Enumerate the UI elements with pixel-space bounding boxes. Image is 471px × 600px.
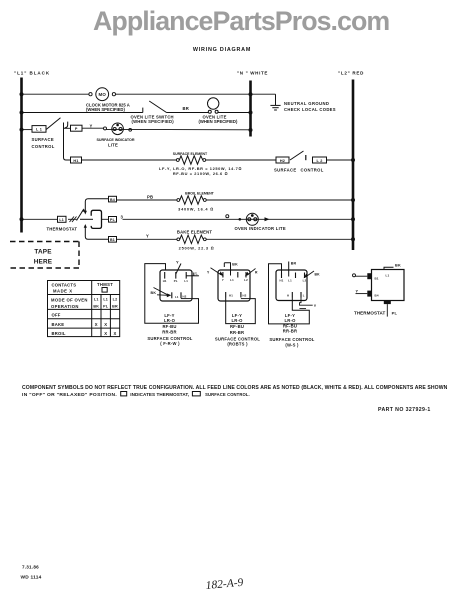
svg-text:L: L — [303, 294, 305, 298]
svg-text:P: P — [75, 127, 78, 131]
thermostat symbol in note — [121, 392, 127, 396]
bus N (middle vertical neutral line, white) — [249, 81, 252, 137]
junction dots on bus L1 — [20, 92, 24, 221]
wire row4 right: L2 to bus L2 — [327, 159, 354, 161]
svg-text:BAKE ELEMENT: BAKE ELEMENT — [177, 229, 212, 234]
block3 top-right blade — [306, 271, 315, 277]
wire row4: surface element to H2 — [206, 159, 276, 161]
svg-text:B4: B4 — [110, 198, 115, 202]
svg-text:X: X — [95, 322, 98, 327]
svg-text:MO: MO — [98, 92, 106, 97]
terminal H2 — [276, 157, 289, 163]
oven lite switch SW1 — [143, 101, 167, 113]
svg-text:L1: L1 — [103, 298, 108, 302]
bake element terminal left — [177, 238, 180, 241]
svg-text:Y: Y — [314, 304, 317, 308]
wire row3 left: bus L1 to surface control L1 — [22, 129, 33, 131]
svg-text:THMST: THMST — [97, 282, 113, 287]
wire row2 left: bus L1 to oven lite switch — [22, 112, 143, 114]
svg-text:L2: L2 — [303, 279, 307, 283]
svg-text:L2: L2 — [244, 278, 248, 282]
block2 bottom terminals — [225, 292, 227, 298]
wire P row stub — [64, 127, 71, 129]
resistor bake element — [180, 235, 204, 243]
svg-text:INDICATES THERMOSTAT,: INDICATES THERMOSTAT, — [130, 392, 189, 397]
svg-text:H1: H1 — [163, 279, 167, 283]
arrow marker on oven indicator wire — [265, 217, 270, 221]
svg-text:OFF: OFF — [52, 313, 61, 318]
svg-text:H2: H2 — [280, 159, 285, 163]
svg-text:RF-BU: RF-BU — [283, 323, 297, 328]
svg-text:THERMOSTAT: THERMOSTAT — [354, 311, 386, 316]
svg-text:LR-O: LR-O — [164, 318, 176, 323]
svg-text:BK: BK — [315, 273, 321, 277]
terminal L2 — [313, 157, 327, 163]
wire broil row: B4 to broil element — [117, 199, 177, 201]
switch blade surface control right — [290, 151, 304, 160]
svg-text:X: X — [104, 331, 107, 336]
svg-text:Y: Y — [90, 123, 93, 128]
svg-text:OVEN INDICATOR LITE: OVEN INDICATOR LITE — [235, 226, 286, 231]
svg-text:RR-BR: RR-BR — [230, 330, 245, 335]
svg-text:BAKE: BAKE — [52, 322, 65, 327]
contact P — [71, 125, 83, 131]
switch blade of surface control L1 — [46, 118, 60, 130]
terminal H1 — [71, 157, 82, 163]
svg-text:L1: L1 — [59, 218, 64, 222]
svg-text:Y: Y — [222, 278, 224, 282]
block1 bottom exit wire — [181, 298, 192, 300]
svg-text:L1: L1 — [386, 274, 390, 278]
wire row4: H1 to surface element — [82, 159, 177, 161]
svg-text:L1: L1 — [230, 278, 234, 282]
svg-text:PL: PL — [110, 218, 116, 222]
bake element terminal right — [203, 238, 206, 241]
svg-text:CONTACTS: CONTACTS — [52, 283, 77, 288]
svg-text:Y: Y — [176, 260, 179, 265]
junction dot — [239, 218, 242, 221]
clock motor MO terminal left — [89, 93, 92, 96]
wire row2 mid: switch to oven lite — [167, 112, 209, 114]
block3 Y hook — [300, 298, 313, 306]
block2 top-left blade — [211, 268, 222, 275]
svg-text:RR-BR: RR-BR — [162, 330, 177, 335]
svg-text:SURFACE: SURFACE — [32, 137, 54, 142]
block1 top terminals H1 PL L1 — [165, 272, 187, 279]
contacts table frame — [48, 281, 120, 337]
svg-text:H1: H1 — [229, 294, 233, 298]
svg-text:7.31.86: 7.31.86 — [22, 565, 39, 570]
surface control detail block 3 body — [276, 270, 307, 301]
resistor broil element — [180, 196, 204, 204]
svg-text:L 1: L 1 — [36, 128, 42, 132]
svg-text:MADE X: MADE X — [53, 289, 73, 294]
svg-text:NEUTRAL GROUND: NEUTRAL GROUND — [284, 101, 329, 106]
wire row1 left: bus L1 to clock motor — [22, 93, 89, 95]
svg-text:BK: BK — [232, 263, 238, 267]
svg-text:CONTROL: CONTROL — [301, 168, 324, 173]
contact bar at L2 — [305, 155, 307, 160]
bus L2 (right vertical feed line, red) — [352, 80, 355, 251]
thermostat detail bottom tab PL — [384, 301, 391, 305]
svg-text:RF-BU = 2100W, 26.6 Ω: RF-BU = 2100W, 26.6 Ω — [173, 171, 228, 176]
svg-text:PB: PB — [147, 194, 153, 199]
block1 right stub L2 — [186, 275, 199, 277]
svg-text:H1: H1 — [279, 279, 283, 283]
resistor surface element — [179, 156, 203, 164]
svg-text:WD 1114: WD 1114 — [21, 575, 42, 581]
svg-text:H2: H2 — [243, 294, 247, 298]
terminal B1 — [109, 237, 117, 243]
block1 bottom terminals L1 H2 — [171, 292, 173, 298]
block2 BK feed — [224, 263, 230, 276]
svg-text:BK: BK — [93, 305, 99, 309]
svg-text:H: H — [287, 294, 289, 298]
svg-text:MODE OF OVEN: MODE OF OVEN — [51, 298, 88, 303]
broil element terminal right — [203, 199, 206, 202]
block3 text — [269, 313, 314, 347]
surface indicator lite terminal — [104, 127, 107, 130]
svg-text:B4: B4 — [375, 294, 379, 298]
svg-text:R: R — [255, 271, 258, 275]
clock motor MO terminal right — [112, 93, 115, 96]
svg-text:IN "OFF" OR "RELAXED" POSITION: IN "OFF" OR "RELAXED" POSITION. — [22, 392, 117, 398]
svg-text:L1: L1 — [288, 279, 292, 283]
svg-text:X: X — [104, 322, 107, 327]
svg-text:"N " WHITE: "N " WHITE — [237, 71, 268, 76]
svg-text:BROIL ELEMENT: BROIL ELEMENT — [185, 192, 214, 196]
svg-text:3: 3 — [121, 215, 124, 220]
surface element terminal right — [203, 159, 206, 162]
svg-text:BR: BR — [112, 305, 118, 309]
svg-text:(WHEN SPECIFIED): (WHEN SPECIFIED) — [86, 107, 125, 112]
svg-text:L: L — [196, 272, 198, 276]
hatch mark on thermostat wire — [68, 217, 77, 223]
svg-text:SURFACE INDICATOR: SURFACE INDICATOR — [97, 138, 135, 142]
junction dots on bus N — [249, 92, 253, 132]
block3 bottom terminals — [291, 292, 293, 298]
svg-text:L 2: L 2 — [316, 159, 322, 163]
svg-text:SURFACE: SURFACE — [274, 168, 296, 173]
surface control symbol in note — [192, 392, 200, 396]
svg-text:SURFACE CONTROL: SURFACE CONTROL — [269, 337, 314, 342]
wire broil row right to bus L2 — [206, 199, 353, 201]
bus L1 (left vertical feed line, black) — [20, 78, 23, 233]
svg-text:WIRING DIAGRAM: WIRING DIAGRAM — [193, 47, 251, 53]
block2 terminals — [223, 272, 246, 278]
block3 loop wire — [269, 264, 310, 324]
thermostat symbol box in table — [102, 288, 107, 293]
surface indicator lite lamp — [112, 123, 124, 135]
wire row1 right: clock motor to bus N and neutral ground — [116, 93, 276, 95]
svg-text:"L2" RED: "L2" RED — [338, 71, 364, 76]
thermostat contact L1 — [58, 216, 67, 222]
oven lite lamp — [208, 98, 219, 114]
svg-text:SURFACE CONTROL.: SURFACE CONTROL. — [205, 392, 250, 397]
svg-text:OPERATION: OPERATION — [51, 304, 79, 309]
svg-text:(W-S ): (W-S ) — [285, 342, 299, 347]
svg-text:SURFACE ELEMENT: SURFACE ELEMENT — [173, 152, 208, 156]
svg-text:BK: BK — [395, 264, 401, 268]
tape here box (dashed) — [9, 242, 79, 269]
svg-text:B1: B1 — [110, 238, 115, 242]
wire bake row right to bus L2 — [206, 238, 353, 240]
svg-text:BR: BR — [183, 106, 190, 111]
svg-text:TAPE: TAPE — [34, 249, 52, 256]
clock motor MO — [96, 88, 109, 101]
surface control detail block 1 body — [160, 270, 192, 301]
wire row2 right: oven lite to bus N — [218, 112, 251, 114]
wire thermostat feed from bus L1 — [22, 218, 58, 220]
terminal PL — [109, 217, 117, 223]
svg-text:( F-R-W ): ( F-R-W ) — [160, 341, 180, 346]
svg-text:H2: H2 — [183, 294, 187, 298]
svg-text:PL: PL — [174, 279, 178, 283]
block1 text — [147, 313, 192, 346]
thermostat detail tab 1 with wire and terminal circle — [367, 273, 372, 279]
terminal B4 — [109, 196, 117, 202]
block2 bottom exit wire — [241, 298, 250, 300]
thermostat detail BK stub — [384, 267, 394, 269]
block2 top-right blade — [247, 269, 256, 276]
svg-text:THERMOSTAT: THERMOSTAT — [47, 227, 78, 232]
svg-text:3400W, 16.4 Ω: 3400W, 16.4 Ω — [178, 207, 214, 212]
svg-text:PL: PL — [392, 311, 398, 316]
wire bake row: B1 to bake element — [117, 238, 177, 240]
svg-text:LITE: LITE — [108, 143, 118, 148]
svg-text:BK: BK — [151, 291, 157, 295]
svg-text:H1: H1 — [73, 159, 78, 163]
block1 blade Y — [176, 264, 181, 275]
wire row3 right: lamp to bus N — [107, 128, 251, 130]
svg-text:L2: L2 — [113, 298, 118, 302]
hook at top of vertical wire — [65, 122, 68, 128]
wire P to surface indicator lite — [82, 127, 104, 129]
thermostat detail block body — [372, 270, 405, 301]
wire thermostat common vertical with travel arrows — [85, 199, 108, 240]
svg-text:Y: Y — [146, 233, 149, 238]
svg-text:CHECK LOCAL CODES: CHECK LOCAL CODES — [284, 107, 336, 112]
svg-text:L1: L1 — [175, 295, 179, 299]
svg-text:(WHEN SPECIFIED): (WHEN SPECIFIED) — [199, 119, 238, 124]
svg-text:(WHEN SPECIFIED): (WHEN SPECIFIED) — [132, 119, 175, 124]
svg-text:BR: BR — [291, 262, 297, 266]
junction dots on bus L2 — [351, 158, 355, 241]
svg-text:CONTROL: CONTROL — [32, 144, 55, 149]
ground (neutral ground symbol) — [270, 94, 280, 110]
svg-text:LR-O: LR-O — [231, 318, 243, 323]
thermostat detail tab 2 with wire, node Y — [367, 291, 372, 297]
svg-text:RR-BR: RR-BR — [283, 329, 298, 334]
svg-text:Y: Y — [356, 289, 359, 293]
thermostat contact block — [91, 210, 101, 228]
svg-text:PL: PL — [103, 305, 109, 309]
svg-text:BROIL: BROIL — [52, 331, 66, 336]
svg-text:(ROBTS ): (ROBTS ) — [227, 342, 248, 347]
block3 terminals — [282, 273, 305, 279]
broil element terminal left — [177, 199, 180, 202]
svg-text:B1: B1 — [375, 277, 379, 281]
svg-text:L1: L1 — [184, 279, 188, 283]
svg-text:2500W, 22.3 Ω: 2500W, 22.3 Ω — [179, 245, 215, 250]
svg-text:L1: L1 — [94, 298, 99, 302]
block3 BR feed — [288, 262, 290, 277]
block2 text — [215, 313, 260, 347]
svg-text:LR-O: LR-O — [284, 318, 296, 323]
svg-text:COMPONENT SYMBOLS DO NOT REFLE: COMPONENT SYMBOLS DO NOT REFLECT TRUE CO… — [22, 385, 448, 391]
wire block to PL — [102, 218, 109, 220]
svg-text:AppliancePartsPros.com: AppliancePartsPros.com — [93, 6, 389, 36]
wire into thermostat contact block — [80, 218, 93, 220]
svg-text:RF-BU: RF-BU — [230, 324, 244, 329]
oven indicator lite lamp — [246, 213, 258, 225]
wire oven indicator row: PL to lamp — [123, 218, 354, 220]
svg-text:HERE: HERE — [34, 259, 53, 266]
wire vertical from P row down to H1 row — [64, 123, 71, 161]
svg-text:X: X — [113, 331, 116, 336]
svg-text:RF-BU: RF-BU — [162, 324, 176, 329]
terminal circle above wire — [226, 215, 229, 218]
svg-text:"L1" BLACK: "L1" BLACK — [14, 71, 50, 76]
block1 loop wire — [145, 264, 199, 324]
surface element terminal left — [176, 159, 179, 162]
block2 loop wire — [226, 298, 256, 324]
switch blade thermostat — [77, 210, 84, 221]
surface control detail block 2 body — [218, 270, 250, 301]
surface control contact L1 — [32, 126, 46, 133]
svg-text:PART NO 327929-1: PART NO 327929-1 — [378, 407, 431, 413]
